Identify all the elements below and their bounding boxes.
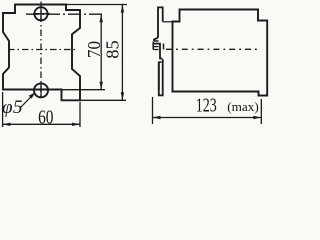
horizontal centerline left view [8, 49, 77, 51]
dimension line 85 [121, 5, 123, 101]
svg-text:123: 123 [196, 95, 217, 117]
clip jaw box rung1 [153, 46, 158, 48]
svg-text:φ5: φ5 [2, 97, 23, 118]
left view body outline [3, 5, 80, 101]
vertical centerline [40, 2, 42, 99]
right view DIN clip lower leg [158, 62, 160, 91]
hole centerline bottom left dash [26, 89, 34, 91]
leader line phi5 [21, 94, 35, 108]
svg-text:85: 85 [103, 40, 123, 59]
extension line 60 left [2, 92, 4, 127]
bottom hole crosshair vertical [40, 83, 42, 97]
dimension line 123 [153, 117, 262, 119]
horizontal centerline right view [166, 48, 260, 50]
mounting hole bottom [34, 83, 48, 97]
clip jaw bottom tick [154, 40, 159, 42]
extension line bottom (85) [80, 99, 126, 101]
right view DIN clip upper jaw tip [154, 38, 158, 41]
clip jaw box left wall [152, 42, 154, 50]
right view DIN clip lower jaw [154, 44, 162, 59]
svg-text:70: 70 [84, 41, 104, 58]
right view DIN clip top tab [158, 7, 163, 37]
dimension line 70 [100, 14, 102, 90]
hole centerline bottom (70 dim extension) [62, 89, 105, 91]
right view body outline [173, 10, 268, 96]
svg-text:(max): (max) [227, 100, 259, 114]
top hole crosshair vertical [40, 7, 42, 21]
mounting hole top [34, 7, 47, 20]
extension line 60 right [79, 102, 81, 127]
top hole crosshair horizontal [33, 13, 50, 15]
extension line 123 right [260, 99, 262, 124]
right view DIN clip bottom tab [159, 59, 163, 95]
svg-text:60: 60 [38, 107, 53, 129]
extension line top (85) [66, 4, 127, 6]
clip mid rung [159, 61, 162, 63]
clip tab connector [163, 21, 173, 23]
clip jaw box rung2 [153, 49, 158, 51]
clip back rib [163, 44, 165, 50]
hole centerline top (70 dim extension) [26, 13, 105, 15]
extension line 123 left [152, 97, 154, 124]
dimension line 60 [2, 123, 80, 125]
